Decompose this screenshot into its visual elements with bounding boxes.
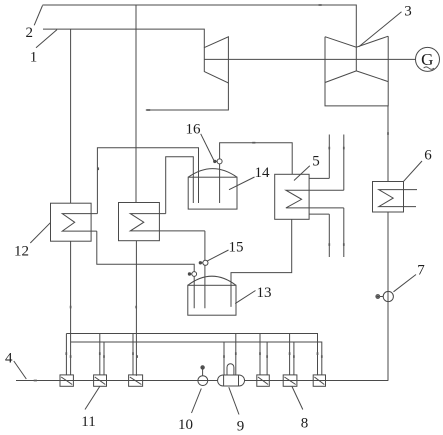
- svg-text:G: G: [421, 50, 433, 69]
- svg-text:15: 15: [229, 240, 244, 256]
- svg-text:2: 2: [26, 25, 34, 41]
- svg-text:1: 1: [30, 50, 38, 66]
- svg-text:4: 4: [5, 351, 13, 367]
- svg-text:6: 6: [424, 148, 432, 164]
- svg-text:11: 11: [81, 414, 95, 430]
- svg-text:12: 12: [14, 244, 29, 260]
- svg-text:5: 5: [312, 154, 320, 170]
- svg-text:3: 3: [404, 4, 412, 20]
- svg-text:10: 10: [178, 417, 193, 433]
- svg-text:16: 16: [186, 122, 202, 138]
- svg-text:14: 14: [255, 165, 271, 181]
- svg-text:8: 8: [301, 416, 309, 432]
- svg-text:7: 7: [417, 263, 425, 279]
- svg-text:9: 9: [237, 419, 245, 435]
- svg-text:13: 13: [257, 285, 272, 301]
